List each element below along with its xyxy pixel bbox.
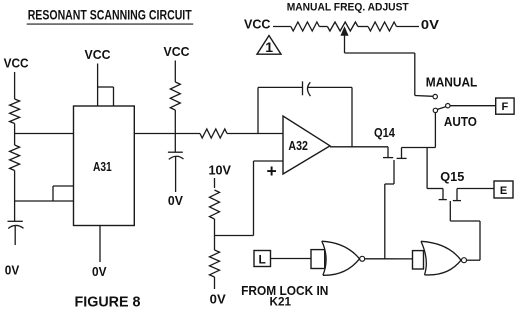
svg-text:0V: 0V (421, 18, 440, 32)
svg-text:K21: K21 (270, 295, 292, 309)
svg-text:MANUAL FREQ. ADJUST: MANUAL FREQ. ADJUST (287, 1, 409, 13)
svg-text:F: F (502, 101, 509, 113)
svg-text:0V: 0V (168, 194, 184, 208)
svg-text:0V: 0V (210, 293, 227, 307)
svg-text:VCC: VCC (164, 45, 190, 59)
svg-text:RESONANT SCANNING CIRCUIT: RESONANT SCANNING CIRCUIT (28, 7, 193, 22)
svg-text:VCC: VCC (244, 17, 271, 31)
svg-text:Q14: Q14 (374, 126, 395, 140)
svg-text:Q15: Q15 (440, 170, 464, 184)
svg-text:1: 1 (265, 39, 273, 55)
svg-text:AUTO: AUTO (444, 115, 477, 129)
svg-text:VCC: VCC (4, 56, 29, 70)
svg-text:+: + (267, 161, 277, 181)
svg-text:10V: 10V (209, 164, 232, 178)
svg-text:FIGURE 8: FIGURE 8 (75, 294, 141, 310)
svg-text:MANUAL: MANUAL (426, 76, 478, 90)
svg-text:VCC: VCC (85, 48, 111, 62)
svg-text:0V: 0V (5, 263, 20, 277)
svg-text:A32: A32 (288, 139, 308, 153)
svg-text:L: L (259, 252, 266, 266)
svg-text:E: E (500, 185, 507, 197)
svg-text:0V: 0V (92, 265, 107, 279)
svg-text:A31: A31 (93, 159, 112, 174)
